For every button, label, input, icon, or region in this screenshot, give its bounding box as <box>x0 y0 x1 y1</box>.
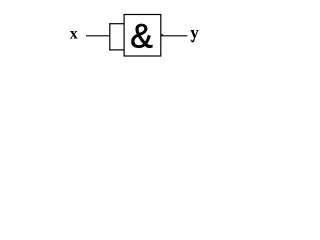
node y descender tail extension <box>192 39 194 42</box>
wire output <box>161 35 187 37</box>
svg-text:y: y <box>190 23 199 42</box>
junction nub at gate output <box>161 34 163 36</box>
AND gate U1 box <box>124 15 161 57</box>
svg-text:x: x <box>70 25 78 42</box>
wire fork vertical <box>109 23 111 50</box>
svg-text:&: & <box>130 17 153 55</box>
wire input from x <box>86 35 110 37</box>
wire top input branch <box>109 23 124 25</box>
wire bottom input branch <box>109 49 124 51</box>
